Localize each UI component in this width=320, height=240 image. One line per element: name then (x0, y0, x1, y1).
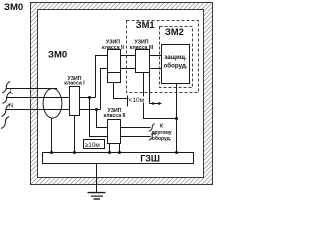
earth conductor (96, 164, 98, 193)
SPD U3 (UZIP class III) (136, 50, 150, 73)
svg-text:ЗМ2: ЗМ2 (165, 27, 184, 37)
GZSh main earthing busbar (43, 153, 194, 164)
svg-text:класса II: класса II (104, 113, 126, 119)
break mark on N (2, 105, 10, 117)
riser L up to floor2 (96, 56, 162, 98)
riser L down branch (90, 98, 151, 137)
junction dot L (88, 96, 91, 99)
U4 earth stub left (109, 144, 111, 153)
svg-text:класса II: класса II (102, 45, 124, 51)
break mark lower (1, 117, 9, 129)
ground symbol bar3 (94, 198, 101, 200)
junction dot N (95, 108, 98, 111)
U3 earth riser (144, 73, 177, 119)
svg-text:оборуд.: оборуд. (152, 135, 172, 142)
svg-text:<10м: <10м (129, 97, 145, 104)
svg-text:≥10м: ≥10м (85, 142, 100, 149)
bus junction dot 1 (50, 151, 53, 154)
U2 earth riser (114, 83, 144, 99)
svg-text:ЗМ1: ЗМ1 (136, 20, 155, 30)
dimension >=10m box (84, 140, 105, 149)
protected equipment box (162, 45, 190, 84)
transformer ellipse (43, 89, 62, 119)
riser N up to floor2 (101, 69, 162, 110)
bus junction dot 5 (175, 151, 178, 154)
zone ZM2 dashed boundary (160, 27, 193, 88)
SPD U2 (UZIP class II upper) (108, 50, 121, 73)
break mark wire to other equipment bottom (149, 133, 155, 141)
wire L entry (6, 97, 96, 99)
SPD U1 (UZIP class I) (70, 87, 80, 116)
wire phase entry (6, 88, 57, 90)
svg-text:ЗМ0: ЗМ0 (4, 2, 23, 13)
svg-text:защищ.: защищ. (164, 54, 187, 61)
ground symbol bar2 (91, 195, 103, 197)
bus junction dot 4 (118, 151, 121, 154)
wire ellipse to GZSh (51, 118, 53, 153)
bus junction dot 2 (73, 151, 76, 154)
svg-text:N: N (9, 104, 13, 110)
break mark on phase wire (2, 82, 10, 94)
svg-text:класса I: класса I (64, 80, 85, 86)
break mark on L (3, 92, 11, 104)
U4 earth stub right (119, 144, 121, 153)
dimension <10m (127, 96, 129, 107)
zone ZM1 dashed boundary (127, 21, 199, 93)
wall (hatched ring, building boundary ZM0/ZM1) (31, 3, 213, 185)
wire U1 to GZSh (74, 116, 76, 153)
svg-text:класса III: класса III (130, 45, 154, 51)
break mark wire to other equipment top (149, 124, 155, 132)
svg-text:оборуд.: оборуд. (163, 63, 187, 70)
svg-text:ГЗШ: ГЗШ (140, 154, 160, 164)
ground symbol bar1 (88, 192, 106, 194)
riser N down branch (97, 110, 151, 128)
equipment earth riser (176, 84, 178, 153)
wire N entry (6, 109, 101, 111)
junction dot equipment riser (175, 117, 178, 120)
bus junction dot 3 (108, 151, 111, 154)
U2 earthing bar (108, 73, 121, 83)
SPD U4 (UZIP class II lower) (108, 120, 121, 144)
svg-text:ЗМ0: ЗМ0 (48, 49, 67, 60)
